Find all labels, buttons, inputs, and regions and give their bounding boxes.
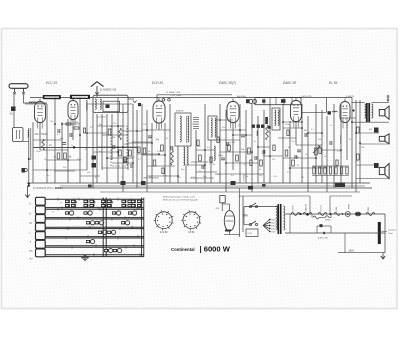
svg-text:110V: 110V — [271, 232, 276, 234]
svg-text:1k: 1k — [127, 130, 129, 132]
svg-text:7k: 7k — [121, 177, 123, 179]
svg-text:1M: 1M — [288, 147, 291, 149]
svg-text:12: 12 — [91, 199, 93, 201]
svg-text:460kHz: 460kHz — [176, 111, 183, 113]
svg-text:Continental: Continental — [171, 247, 195, 252]
svg-text:30k: 30k — [222, 127, 225, 129]
svg-text:EABC80: EABC80 — [305, 203, 308, 212]
svg-text:0,1M: 0,1M — [157, 151, 162, 153]
svg-text:1,2k: 1,2k — [273, 176, 277, 178]
svg-text:220p: 220p — [124, 144, 130, 146]
svg-text:Tafel: Tafel — [388, 233, 393, 235]
svg-text:28k: 28k — [149, 177, 152, 179]
svg-text:E·M 80: E·M 80 — [160, 232, 168, 234]
svg-text:47k: 47k — [90, 127, 93, 129]
svg-text:AM 170kΩ: AM 170kΩ — [35, 132, 47, 136]
svg-text:9k: 9k — [324, 156, 326, 158]
svg-text:4Ω: 4Ω — [10, 113, 13, 116]
svg-text:ECC 81: ECC 81 — [46, 81, 57, 85]
svg-text:12: 12 — [52, 212, 54, 214]
svg-text:12: 12 — [73, 199, 75, 201]
svg-text:2,2k: 2,2k — [177, 177, 181, 179]
svg-text:12: 12 — [73, 210, 75, 212]
svg-text:F 281 10mA: F 281 10mA — [170, 94, 182, 97]
svg-text:Lampen: Lampen — [388, 230, 397, 232]
svg-text:12: 12 — [60, 203, 62, 205]
svg-text:45V: 45V — [216, 208, 220, 210]
svg-text:36k: 36k — [245, 176, 248, 178]
svg-text:150V: 150V — [271, 226, 276, 228]
svg-text:12: 12 — [126, 219, 128, 221]
svg-text:ECH81: ECH81 — [293, 204, 295, 211]
svg-text:Meßeinspannungen: U,B,A = 2,5: Meßeinspannungen: U,B,A = 2,5 V — [163, 195, 196, 198]
svg-text:12: 12 — [110, 247, 112, 249]
svg-text:52k: 52k — [301, 177, 304, 179]
svg-text:6.08876: 6.08876 — [346, 96, 355, 98]
svg-text:| 6000 W: | 6000 W — [200, 245, 231, 254]
svg-text:8n: 8n — [254, 141, 256, 143]
svg-text:33k: 33k — [87, 172, 90, 174]
svg-text:CP 81: CP 81 — [188, 232, 195, 234]
svg-text:27+45A/478 VHV u. B.7MHz: 27+45A/478 VHV u. B.7MHz — [33, 187, 64, 190]
svg-text:12: 12 — [96, 219, 98, 221]
svg-text:0,5M: 0,5M — [266, 132, 271, 134]
svg-text:125V: 125V — [271, 229, 276, 231]
svg-text:Meßwerte bei am CP-RT/42 Spieg: Meßwerte bei am CP-RT/42 Spiegelfr. — [163, 198, 198, 201]
svg-text:8k: 8k — [85, 149, 87, 151]
svg-text:230V: 230V — [243, 215, 249, 218]
svg-text:EM80: EM80 — [326, 220, 331, 222]
svg-text:1n: 1n — [192, 124, 194, 126]
svg-text:0,5M: 0,5M — [230, 142, 235, 144]
svg-text:U: U — [30, 213, 32, 216]
svg-text:EABC 80: EABC 80 — [283, 81, 296, 85]
svg-text:8Ω: 8Ω — [304, 130, 307, 132]
svg-text:A 890 LΩfl: A 890 LΩfl — [318, 236, 328, 239]
svg-text:2n: 2n — [330, 125, 332, 127]
svg-text:380V: 380V — [349, 250, 355, 253]
svg-text:10n: 10n — [113, 123, 116, 125]
svg-text:EABC 80(?): EABC 80(?) — [219, 81, 236, 85]
svg-text:ECH 81: ECH 81 — [152, 81, 163, 85]
svg-text:5k: 5k — [199, 171, 201, 173]
svg-text:M: M — [30, 222, 32, 225]
svg-text:EM80: EM80 — [349, 203, 351, 209]
svg-text:3k: 3k — [166, 138, 168, 140]
svg-text:6L AWER/LYNE: 6L AWER/LYNE — [100, 89, 117, 92]
svg-text:12: 12 — [120, 210, 122, 212]
svg-text:10,7MHz: 10,7MHz — [97, 117, 106, 119]
svg-text:220V: 220V — [271, 220, 276, 222]
svg-text:ECC81: ECC81 — [321, 204, 323, 211]
svg-text:2k: 2k — [71, 145, 73, 147]
svg-text:15k: 15k — [212, 164, 215, 166]
svg-text:4k: 4k — [259, 169, 261, 171]
svg-text:12: 12 — [104, 229, 106, 231]
svg-text:AM 460k: AM 460k — [237, 95, 247, 98]
svg-text:5k: 5k — [349, 139, 351, 141]
svg-text:6,8k: 6,8k — [133, 147, 137, 149]
svg-text:12k: 12k — [143, 124, 146, 126]
svg-text:18k: 18k — [361, 147, 364, 149]
svg-text:FM 10,7M: FM 10,7M — [302, 96, 312, 98]
svg-text:12: 12 — [109, 199, 111, 201]
svg-text:90k: 90k — [63, 167, 66, 169]
svg-text:1M: 1M — [112, 137, 115, 139]
svg-text:12: 12 — [92, 238, 94, 240]
svg-text:EL 84: EL 84 — [329, 81, 337, 85]
svg-text:200V: 200V — [271, 223, 276, 225]
svg-text:6k: 6k — [297, 165, 299, 167]
svg-text:40k: 40k — [318, 139, 321, 141]
svg-text:22k: 22k — [272, 159, 275, 161]
svg-text:11k: 11k — [217, 174, 220, 176]
svg-text:12: 12 — [92, 210, 94, 212]
svg-text:2M: 2M — [238, 125, 241, 127]
svg-text:200p: 200p — [218, 155, 224, 157]
svg-text:12: 12 — [130, 199, 132, 201]
svg-text:1,5k: 1,5k — [291, 141, 295, 143]
svg-text:6,3V: 6,3V — [248, 233, 253, 235]
svg-text:25k: 25k — [50, 121, 53, 123]
